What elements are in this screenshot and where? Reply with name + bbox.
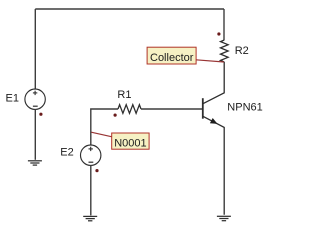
wire E2 to ground xyxy=(90,165,92,215)
node dot below E2 xyxy=(95,169,98,172)
svg-text:N0001: N0001 xyxy=(114,138,146,150)
wire R1 to base xyxy=(141,108,202,110)
voltage source E2 xyxy=(81,145,101,165)
node dot near R2 xyxy=(217,32,220,35)
svg-text:NPN61: NPN61 xyxy=(227,101,262,113)
ground under E2 xyxy=(83,216,97,220)
label R2 xyxy=(235,45,249,57)
label E1 xyxy=(6,92,19,104)
wire E1 to ground xyxy=(34,109,36,159)
svg-text:R1: R1 xyxy=(117,89,131,101)
transistor Q1 collector lead xyxy=(203,62,224,104)
voltage source E1 xyxy=(25,89,45,109)
leader line N0001 xyxy=(91,132,112,137)
svg-text:E2: E2 xyxy=(60,147,73,159)
wire left vertical to E1 xyxy=(34,9,36,89)
svg-text:Collector: Collector xyxy=(150,52,194,64)
transistor Q1 emitter lead with arrow xyxy=(203,116,224,214)
ground under E1 xyxy=(28,161,42,165)
label E2 xyxy=(60,147,73,159)
svg-text:E1: E1 xyxy=(6,92,19,104)
resistor R1 xyxy=(118,105,141,114)
leader line Collector xyxy=(196,60,224,62)
ground under emitter xyxy=(217,216,231,220)
label R1 xyxy=(117,89,131,101)
svg-text:R2: R2 xyxy=(235,45,249,57)
transistor Q1 base bar xyxy=(202,98,204,119)
label NPN61 xyxy=(227,101,262,113)
resistor R2 xyxy=(221,40,229,62)
node dot at N0001 net xyxy=(114,114,117,117)
wire E2 vertical up to corner xyxy=(91,109,118,145)
wire top rail to R2 xyxy=(223,9,225,40)
wire top rail xyxy=(35,8,224,10)
net label Collector xyxy=(147,47,196,64)
net label N0001 xyxy=(112,133,149,150)
node dot below E1 xyxy=(39,113,42,116)
